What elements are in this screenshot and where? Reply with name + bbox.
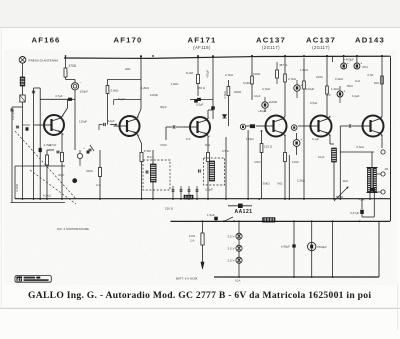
svg-text:47kΩ: 47kΩ: [254, 160, 261, 164]
svg-text:4,7µF: 4,7µF: [55, 94, 63, 98]
svg-text:0,5µF: 0,5µF: [222, 149, 229, 153]
svg-text:+400µF: +400µF: [344, 58, 354, 62]
svg-text:M.F. 2 SOPPRESSORE: M.F. 2 SOPPRESSORE: [57, 227, 89, 231]
svg-text:10µF: 10µF: [254, 94, 261, 98]
svg-text:0,1µF: 0,1µF: [352, 94, 360, 98]
svg-text:100µF: 100µF: [80, 90, 88, 94]
svg-text:1,2kΩ: 1,2kΩ: [331, 87, 340, 91]
svg-text:2,7kΩ: 2,7kΩ: [288, 77, 297, 81]
svg-text:470Ω: 470Ω: [144, 149, 152, 153]
svg-text:4,7kΩ: 4,7kΩ: [356, 145, 365, 149]
svg-text:4,7kΩ: 4,7kΩ: [223, 91, 227, 99]
svg-text:50Ω: 50Ω: [205, 143, 210, 147]
svg-text:AC137: AC137: [306, 36, 336, 45]
svg-text:+: +: [343, 90, 345, 94]
svg-text:0,1µF: 0,1µF: [118, 97, 126, 101]
svg-text:AF171: AF171: [187, 36, 216, 45]
svg-text:1kΩ: 1kΩ: [355, 79, 360, 83]
svg-text:GALLO Ing. G. - Autoradio: GALLO Ing. G. - Autoradio Mod. GC 2777 B…: [28, 290, 371, 301]
svg-text:1nF: 1nF: [186, 137, 191, 141]
svg-text:1,5kΩ: 1,5kΩ: [300, 68, 309, 72]
svg-text:6,45µF: 6,45µF: [281, 245, 290, 249]
svg-text:100µF: 100µF: [246, 137, 254, 141]
svg-text:450 Ω: 450 Ω: [197, 86, 206, 90]
svg-text:50Ω: 50Ω: [347, 84, 353, 88]
svg-text:1500µF: 1500µF: [317, 245, 327, 249]
svg-text:4,7kΩ: 4,7kΩ: [15, 183, 19, 192]
svg-text:+: +: [301, 83, 303, 87]
svg-text:(2G117): (2G117): [262, 45, 280, 50]
svg-text:470Ω: 470Ω: [69, 64, 77, 68]
svg-text:0,1A: 0,1A: [235, 279, 241, 283]
svg-text:+: +: [347, 62, 349, 66]
svg-text:120pF: 120pF: [79, 120, 87, 124]
svg-text:2kΩ: 2kΩ: [125, 67, 131, 71]
svg-text:PRESA DI ANTENNA: PRESA DI ANTENNA: [29, 59, 60, 63]
svg-text:+: +: [269, 100, 271, 104]
svg-text:100pF: 100pF: [205, 188, 213, 192]
svg-text:(AF116): (AF116): [193, 45, 211, 50]
svg-text:100Ω: 100Ω: [270, 100, 278, 104]
svg-text:2 A: 2 A: [190, 239, 194, 243]
svg-text:120Ω: 120Ω: [292, 160, 299, 164]
svg-text:AD143: AD143: [355, 36, 385, 45]
svg-text:100Ω: 100Ω: [253, 72, 261, 76]
svg-text:1kΩ: 1kΩ: [343, 179, 349, 183]
svg-text:5,6kΩ: 5,6kΩ: [243, 81, 250, 85]
svg-text:5,6kΩ: 5,6kΩ: [111, 89, 120, 93]
svg-text:7kΩ: 7kΩ: [277, 182, 283, 186]
svg-text:0,47µF: 0,47µF: [350, 211, 359, 215]
svg-text:1,2kΩ: 1,2kΩ: [171, 82, 180, 86]
svg-text:4,7kΩ: 4,7kΩ: [262, 87, 271, 91]
svg-text:150 Ω: 150 Ω: [165, 207, 174, 211]
svg-text:100µF: 100µF: [306, 87, 314, 91]
svg-text:10µF: 10µF: [108, 119, 115, 123]
svg-text:BATT. 6 V NOM.: BATT. 6 V NOM.: [176, 277, 198, 281]
svg-text:2,2kΩ: 2,2kΩ: [297, 179, 306, 183]
svg-text:30pF: 30pF: [160, 105, 167, 109]
svg-text:1nF: 1nF: [96, 183, 101, 187]
svg-text:+: +: [300, 138, 302, 142]
svg-text:125 Ω: 125 Ω: [264, 145, 273, 149]
svg-text:2,5 V: 2,5 V: [227, 259, 234, 263]
svg-text:0,5µF: 0,5µF: [196, 103, 204, 107]
svg-text:3,5 V: 3,5 V: [227, 235, 234, 239]
svg-text:AF166: AF166: [31, 36, 60, 45]
svg-text:47Ω: 47Ω: [362, 65, 368, 69]
svg-text:82Ω: 82Ω: [374, 81, 379, 85]
svg-text:30kΩ: 30kΩ: [263, 182, 271, 186]
svg-text:8,2kΩ: 8,2kΩ: [186, 71, 193, 75]
svg-text:M.F.1: M.F.1: [147, 155, 154, 159]
svg-text:0,2kΩ: 0,2kΩ: [335, 77, 344, 81]
svg-text:200Ω: 200Ω: [234, 90, 242, 94]
svg-text:1,8kΩ: 1,8kΩ: [141, 86, 150, 90]
svg-text:47: 47: [17, 277, 22, 282]
svg-text:2nF: 2nF: [326, 93, 331, 97]
svg-text:AA121: AA121: [234, 209, 252, 215]
svg-text:3,5 V: 3,5 V: [227, 247, 234, 251]
svg-text:2,7kΩ: 2,7kΩ: [225, 73, 234, 77]
svg-text:(2G117): (2G117): [312, 45, 330, 50]
svg-text:4,7nF: 4,7nF: [49, 143, 57, 147]
svg-text:470Ω: 470Ω: [160, 143, 167, 147]
svg-text:100pF: 100pF: [150, 93, 158, 97]
svg-text:0,5µF: 0,5µF: [310, 101, 318, 105]
svg-text:1,5µF: 1,5µF: [207, 213, 215, 217]
svg-text:0,47µF: 0,47µF: [11, 110, 15, 120]
svg-text:AC137: AC137: [256, 36, 286, 45]
svg-text:8,2kΩ: 8,2kΩ: [43, 194, 52, 198]
svg-text:FUS.: FUS.: [189, 234, 196, 238]
svg-text:0,1µF: 0,1µF: [312, 137, 319, 141]
svg-text:487 Ω: 487 Ω: [279, 63, 288, 67]
svg-text:330Ω: 330Ω: [86, 169, 93, 173]
svg-text:470µF: 470µF: [205, 70, 209, 78]
svg-text:220Ω: 220Ω: [316, 75, 323, 79]
svg-text:AF170: AF170: [113, 36, 142, 45]
svg-text:20pF: 20pF: [58, 173, 65, 177]
svg-text:4,7Ω: 4,7Ω: [367, 73, 374, 77]
svg-text:10µF: 10µF: [318, 155, 325, 159]
